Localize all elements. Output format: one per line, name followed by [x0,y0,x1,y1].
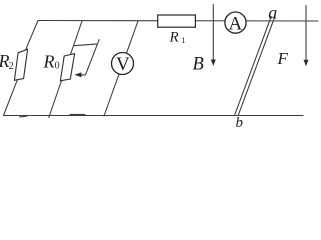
svg-text:B: B [193,54,204,74]
wire rheostat slider loop [74,40,99,75]
rod on rails (double line) [235,17,275,115]
junction tick near R2 bottom [20,115,27,118]
rheostat R0 box [60,54,74,81]
svg-text:b: b [236,115,244,131]
field arrow B head [211,60,216,67]
voltmeter V circle [112,53,134,75]
svg-text:2: 2 [9,61,14,72]
svg-text:R: R [169,29,179,45]
field arrow right shaft [305,6,307,61]
wire left edge (R2 branch) [4,21,39,116]
svg-text:A: A [229,13,243,34]
svg-text:R: R [43,52,55,72]
svg-text:V: V [116,54,130,75]
svg-text:F: F [277,49,289,68]
wire V branch [104,21,138,116]
svg-text:0: 0 [55,60,60,71]
wire top [38,20,318,23]
slider arrow head [74,72,81,77]
wire bottom [4,115,304,117]
resistor R1 [158,15,196,27]
ammeter A circle [225,12,246,33]
field arrow B shaft [212,5,214,61]
wire R0 branch [49,21,82,118]
svg-text:1: 1 [181,35,185,45]
resistor R2 [14,49,27,80]
svg-text:a: a [268,2,277,22]
wire wobble on bottom wire [70,113,85,115]
field arrow right head [304,60,309,67]
